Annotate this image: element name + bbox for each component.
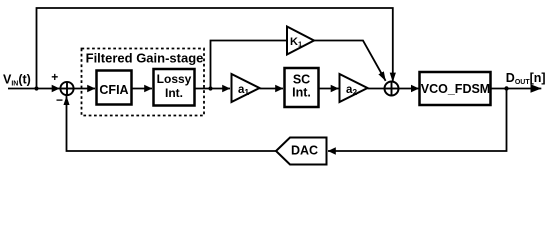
input label VIN(t) [3,73,31,88]
svg-text:VIN(t): VIN(t) [3,73,31,88]
block DAC (left-pointing pentagon) [276,138,327,165]
amp K1 [287,27,314,55]
summing junction S1 [60,82,73,95]
amp a2 [340,74,368,102]
summing junction S2 [385,82,399,96]
svg-text:Lossy: Lossy [157,72,192,86]
wire a1 to SC Int [260,88,284,90]
svg-text:+: + [51,70,58,84]
wire node B up and across to amp K1 [211,41,287,89]
wire VCO_FDSM to output [491,88,542,90]
output label DOUT[n] [506,71,546,86]
svg-text:DOUT[n]: DOUT[n] [506,71,546,86]
svg-text:DAC: DAC [291,143,318,157]
svg-text:SC: SC [293,72,310,86]
node B junction dot after gain-stage [208,86,212,90]
svg-text:VCO_FDSM: VCO_FDSM [421,82,490,96]
block SC Int [285,68,319,107]
wire DAC to S1 (minus input) [67,96,277,151]
minus sign at S1 [56,93,63,107]
wire SC Int to amp a2 [319,88,339,90]
wire feedforward top: up from node A, across, down into summing junction S2 [37,8,393,89]
node C output junction dot [504,86,508,90]
svg-text:CFIA: CFIA [99,83,128,97]
dashed box Filtered Gain-stage [82,49,205,116]
wire Lossy Int to amp a1 [195,88,231,90]
wire a2 to summing junction S2 [368,88,385,90]
plus sign at S1 [51,70,58,84]
wire S2 to VCO_FDSM [399,88,419,90]
amp a1 [232,74,260,102]
wire feedback: down from node C, across to DAC [328,89,507,152]
svg-text:Filtered Gain-stage: Filtered Gain-stage [86,51,204,66]
svg-text:Int.: Int. [165,86,183,100]
svg-text:Int.: Int. [292,86,311,100]
block Lossy Int [154,69,195,106]
wire input to summing junction S1 [8,88,60,90]
svg-text:−: − [56,93,63,107]
wire S1 to CFIA [74,88,95,90]
block VCO_FDSM [420,72,491,105]
node A input junction dot [34,86,38,90]
block CFIA [97,71,132,105]
label Filtered Gain-stage [86,51,204,66]
wire K1 to summing junction S2 (diagonal) [314,41,386,81]
wire CFIA to Lossy Int [132,88,153,90]
